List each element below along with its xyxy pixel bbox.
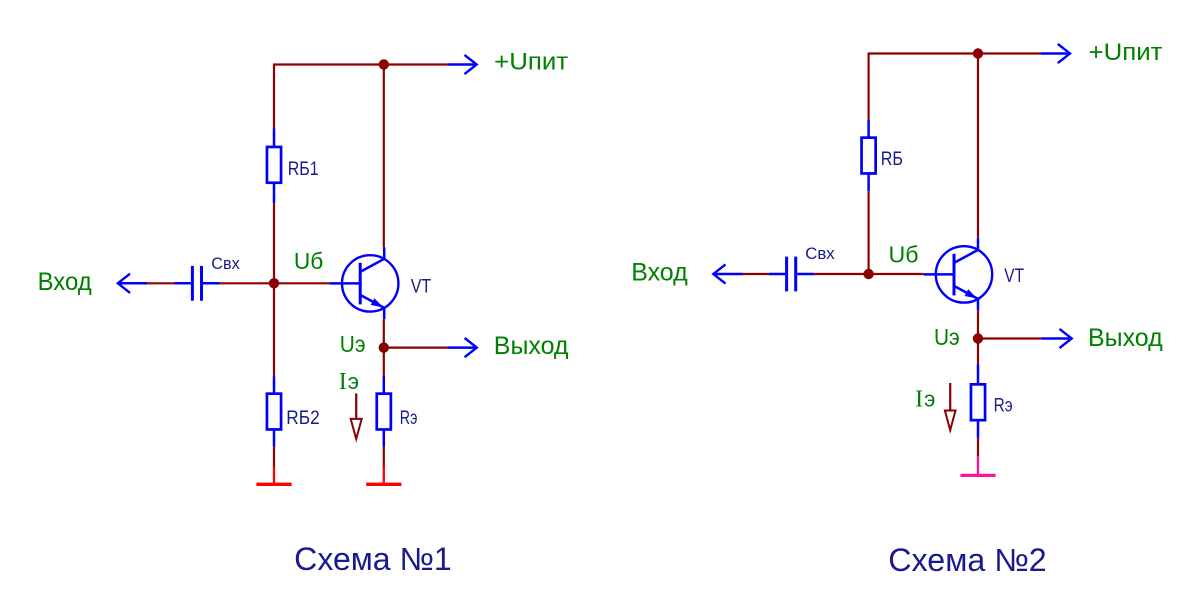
svg-text:+Uпит: +Uпит	[494, 48, 568, 75]
svg-text:Iэ: Iэ	[915, 386, 935, 412]
svg-text:Свх: Свх	[805, 245, 835, 263]
svg-text:Iэ: Iэ	[339, 369, 359, 395]
svg-text:Свх: Свх	[211, 255, 240, 273]
svg-text:Выход: Выход	[494, 332, 569, 360]
svg-text:Схема №1: Схема №1	[294, 541, 452, 577]
svg-text:Выход: Выход	[1088, 324, 1163, 352]
svg-text:Rэ: Rэ	[994, 395, 1013, 416]
svg-text:Uэ: Uэ	[340, 331, 366, 357]
svg-text:RБ1: RБ1	[288, 159, 319, 180]
svg-text:Схема №2: Схема №2	[888, 542, 1046, 578]
svg-text:RБ: RБ	[881, 149, 903, 170]
svg-text:Вход: Вход	[631, 259, 688, 287]
svg-text:Uб: Uб	[294, 248, 323, 274]
svg-text:Вход: Вход	[38, 268, 92, 296]
svg-text:Uэ: Uэ	[934, 324, 960, 350]
svg-text:Rэ: Rэ	[400, 408, 418, 429]
svg-text:VT: VT	[411, 276, 432, 297]
svg-text:VT: VT	[1004, 266, 1024, 287]
svg-text:RБ2: RБ2	[286, 408, 319, 429]
svg-text:Uб: Uб	[889, 242, 919, 268]
svg-text:+Uпит: +Uпит	[1089, 39, 1163, 66]
